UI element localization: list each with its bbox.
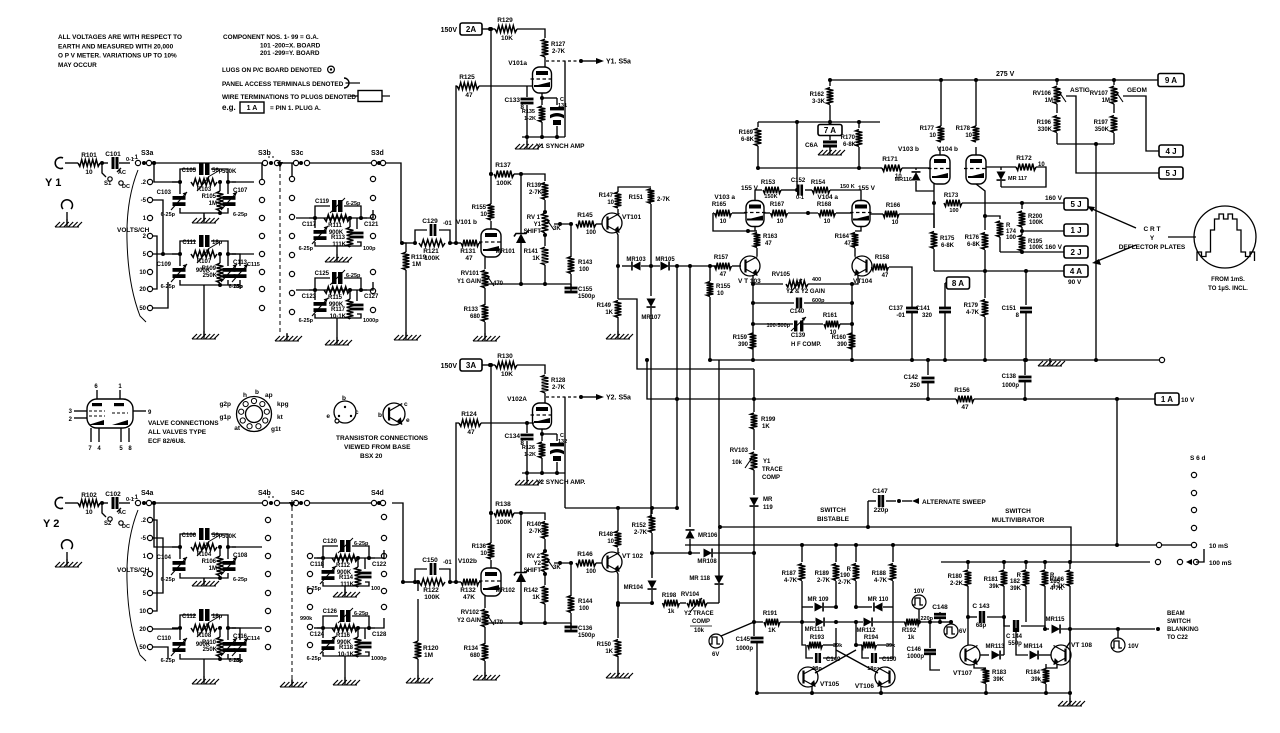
resistor R160 <box>849 333 856 349</box>
svg-text:39k: 39k <box>833 643 843 649</box>
svg-text:Y2. S5a: Y2. S5a <box>606 395 631 402</box>
svg-text:S4b: S4b <box>258 490 271 497</box>
svg-text:470: 470 <box>493 620 504 626</box>
svg-text:R168: R168 <box>817 202 832 208</box>
svg-text:BSX 20: BSX 20 <box>360 453 383 460</box>
pulse symbol 10V <box>912 595 926 609</box>
pulse symbol 6V (right) <box>944 624 958 638</box>
resistor R169 <box>757 122 759 127</box>
wire (x652 lower) <box>651 508 653 514</box>
capacitor C128 <box>359 642 372 645</box>
svg-text:400: 400 <box>812 277 821 283</box>
svg-text:68p: 68p <box>976 623 987 629</box>
svg-text:C107: C107 <box>233 188 248 194</box>
svg-text:900K: 900K <box>196 268 211 274</box>
svg-text:-01: -01 <box>443 560 452 566</box>
resistor R182 <box>1025 562 1027 569</box>
resistor R200 <box>1021 203 1023 209</box>
resistor R173 <box>944 200 962 207</box>
svg-text:R139: R139 <box>527 183 542 189</box>
svg-text:C102: C102 <box>105 491 121 498</box>
switch contact (S3 bank2 left) <box>289 214 294 219</box>
node Y2. S5a <box>579 395 583 399</box>
svg-text:C138: C138 <box>1002 374 1017 380</box>
switch contact (S3 bank2 left) <box>289 176 294 181</box>
svg-text:90 V: 90 V <box>1068 279 1082 286</box>
svg-text:ALTERNATE SWEEP: ALTERNATE SWEEP <box>922 499 986 506</box>
wire <box>323 546 338 558</box>
resistor R189 <box>835 545 837 562</box>
resistor R165 <box>713 212 714 214</box>
resistor R175 <box>933 203 935 228</box>
wire <box>484 661 486 677</box>
wire <box>564 397 566 473</box>
svg-text:1k: 1k <box>668 609 675 615</box>
svg-text:390: 390 <box>837 342 848 348</box>
capacitor C127 <box>351 304 364 307</box>
svg-text:kpg: kpg <box>277 401 289 408</box>
svg-text:Y1 SYNCH AMP: Y1 SYNCH AMP <box>536 143 585 150</box>
capacitor C122 <box>359 572 372 575</box>
svg-text:R163: R163 <box>763 234 778 240</box>
terminal <box>1177 559 1182 564</box>
capacitor C149 <box>806 645 813 658</box>
wire <box>309 502 372 504</box>
svg-text:R156: R156 <box>954 387 970 394</box>
capacitor C150 <box>862 645 869 658</box>
resistor R155 (VT103 base) <box>707 282 714 297</box>
svg-text:220p: 220p <box>874 507 889 514</box>
svg-text:R107: R107 <box>197 259 212 265</box>
resistor R145 <box>576 221 596 228</box>
potentiometer RV 1 <box>542 213 549 233</box>
svg-text:Y2: Y2 <box>534 561 542 567</box>
svg-text:6-25p: 6-25p <box>161 212 176 218</box>
wire <box>526 137 528 145</box>
svg-text:c: c <box>355 409 359 416</box>
svg-text:3-3K: 3-3K <box>812 99 826 105</box>
svg-text:ALL VOLTAGES ARE WITH RESPEC: ALL VOLTAGES ARE WITH RESPECT TO <box>58 34 182 41</box>
resistor R121 <box>419 240 445 247</box>
svg-text:1500p: 1500p <box>578 294 595 300</box>
svg-text:V104 a: V104 a <box>817 194 838 201</box>
svg-text:100: 100 <box>586 230 597 236</box>
potentiometer RV 2 <box>542 552 549 572</box>
wire <box>544 265 546 284</box>
svg-text:C127: C127 <box>364 294 379 300</box>
wire <box>450 242 461 244</box>
svg-text:9 A: 9 A <box>1165 76 1177 85</box>
wire <box>403 581 415 583</box>
svg-text:DC: DC <box>122 184 130 190</box>
switch contact (S3 wafer) <box>259 179 264 184</box>
switch contact (S4 bank2 left) <box>307 553 312 558</box>
svg-text:S3d: S3d <box>371 150 384 157</box>
wire (VT107 emitter) <box>974 664 986 668</box>
svg-text:6-25p: 6-25p <box>299 246 314 252</box>
svg-text:39k: 39k <box>989 584 1000 590</box>
wire (VT103 emitter) <box>752 275 754 360</box>
diode MR104 <box>651 553 653 578</box>
wire <box>315 278 330 290</box>
svg-text:4-7K: 4-7K <box>1052 584 1066 590</box>
svg-text:47: 47 <box>465 92 473 99</box>
svg-text:275 V: 275 V <box>996 71 1015 78</box>
switch contact (S3 bank2 right) <box>370 195 375 200</box>
svg-text:MR105: MR105 <box>655 257 675 263</box>
resistor R167 <box>764 212 770 214</box>
svg-text:Y1 GAIN: Y1 GAIN <box>457 279 481 285</box>
switch contact (S4 bank2 right) <box>381 553 386 558</box>
resistor R142 <box>542 586 549 604</box>
svg-text:R160: R160 <box>832 335 847 341</box>
wire <box>309 217 367 219</box>
plug 2J <box>1000 251 1064 253</box>
capacitor C133 <box>526 86 528 97</box>
svg-text:C112: C112 <box>182 614 197 620</box>
capacitor C106 <box>199 528 204 540</box>
capacitor C142 <box>927 360 929 375</box>
svg-text:470: 470 <box>493 281 504 287</box>
svg-text:R106: R106 <box>202 559 217 565</box>
svg-text:6-8K: 6-8K <box>741 137 755 143</box>
svg-text:kt: kt <box>277 414 284 421</box>
plug 5J <box>1064 198 1088 210</box>
svg-text:3K: 3K <box>553 226 561 232</box>
switch contact (S3 wafer) <box>259 233 264 238</box>
pulse symbol 6V (left) <box>709 634 723 648</box>
resistor R143 <box>568 257 575 274</box>
svg-text:10: 10 <box>480 212 487 218</box>
transistor VT103 <box>740 256 760 276</box>
svg-text:R131: R131 <box>460 248 476 255</box>
diode MR107 <box>647 299 656 308</box>
svg-text:R170: R170 <box>841 135 856 141</box>
wire <box>450 581 461 583</box>
svg-text:b: b <box>255 389 259 396</box>
switch contact (S4 bank2 left) <box>307 571 312 576</box>
svg-text:39k: 39k <box>886 643 896 649</box>
wire <box>521 513 545 520</box>
switch contact (S3 bank2 right) <box>370 214 375 219</box>
wire <box>286 334 288 338</box>
svg-text:6-25p: 6-25p <box>299 318 314 324</box>
switch contact (S4 bank2 left) <box>307 642 312 647</box>
capacitor C134 <box>526 422 528 433</box>
svg-text:Y1: Y1 <box>763 459 771 465</box>
wire (VT107 collector up) <box>967 617 969 645</box>
resistor R146 <box>576 560 596 567</box>
svg-text:10: 10 <box>824 219 831 225</box>
svg-text:2-7K: 2-7K <box>552 385 566 391</box>
svg-text:10K: 10K <box>501 371 513 378</box>
wire (multivib top rail y562) <box>941 561 1150 563</box>
svg-text:R116: R116 <box>336 633 351 639</box>
svg-text:V101a: V101a <box>508 60 527 67</box>
potentiometer RV107 <box>1113 80 1115 85</box>
transistor VT104 <box>852 256 872 276</box>
potentiometer RV102 <box>484 596 486 608</box>
capacitor C144 <box>1004 617 1010 626</box>
svg-text:LUGS ON P/C BOARD DENOTED: LUGS ON P/C BOARD DENOTED <box>222 67 322 74</box>
svg-text:1500p: 1500p <box>578 633 595 639</box>
svg-text:ECF 82/6U8.: ECF 82/6U8. <box>148 438 186 445</box>
wire (V104a cathode) <box>855 227 861 231</box>
wire <box>180 241 196 254</box>
transistor VT107 <box>960 645 980 665</box>
svg-text:MR111: MR111 <box>805 627 824 633</box>
ground <box>291 679 293 687</box>
svg-text:10 V: 10 V <box>1181 397 1195 404</box>
wire (to crt) <box>1168 236 1196 238</box>
svg-text:h: h <box>243 392 247 399</box>
svg-text:R159: R159 <box>733 335 748 341</box>
wire <box>100 162 108 164</box>
svg-text:100: 100 <box>579 606 590 612</box>
svg-text:10 mS: 10 mS <box>1209 543 1229 550</box>
resistor R188 <box>892 545 894 562</box>
svg-text:b: b <box>378 412 382 419</box>
capacitor C137 <box>911 305 913 307</box>
svg-text:R193: R193 <box>810 635 825 641</box>
wire <box>172 627 180 629</box>
transistor symbol diagram <box>383 403 405 425</box>
svg-text:R199: R199 <box>761 417 776 423</box>
wire <box>485 622 571 624</box>
switch S2 <box>102 503 106 517</box>
svg-text:100K: 100K <box>1029 245 1044 251</box>
wire (bistable cross-coupling) <box>835 628 837 645</box>
resistor R158 <box>872 264 889 271</box>
wire <box>291 163 293 176</box>
ground <box>203 215 205 223</box>
svg-text:47: 47 <box>844 241 851 247</box>
svg-text:1M: 1M <box>209 566 217 572</box>
svg-text:R147: R147 <box>599 193 614 199</box>
svg-text:C146: C146 <box>907 647 922 653</box>
wire <box>402 242 415 244</box>
wire <box>296 289 315 291</box>
resistor R122 <box>419 579 445 586</box>
ground <box>203 578 205 586</box>
svg-text:C122: C122 <box>372 562 387 568</box>
svg-text:550p: 550p <box>1008 641 1022 647</box>
switch contact (S3 bank2 left) <box>289 252 294 257</box>
wire <box>172 253 180 255</box>
resistor R184 <box>1045 664 1047 669</box>
svg-text:RV105: RV105 <box>772 272 791 278</box>
capacitor C150 <box>415 569 427 582</box>
wire (main lower bus) <box>710 359 1162 361</box>
svg-text:50: 50 <box>139 645 146 651</box>
svg-text:R176: R176 <box>965 235 980 241</box>
svg-text:111K: 111K <box>332 242 346 248</box>
svg-text:C145: C145 <box>736 637 751 643</box>
resistor R151 <box>648 189 655 204</box>
plug 4A <box>1064 265 1088 277</box>
svg-text:10: 10 <box>607 539 614 545</box>
svg-text:250: 250 <box>910 383 921 389</box>
svg-text:R179: R179 <box>964 303 979 309</box>
wire <box>296 217 315 219</box>
svg-text:C114: C114 <box>247 636 261 642</box>
wire <box>152 236 157 289</box>
svg-text:4 J: 4 J <box>1165 147 1176 156</box>
resistor R155 <box>488 204 495 220</box>
svg-text:VOLTS/CH: VOLTS/CH <box>117 227 150 234</box>
arrow to 5J <box>1090 208 1136 228</box>
svg-text:190: 190 <box>840 573 851 579</box>
svg-text:10: 10 <box>139 609 146 615</box>
svg-text:10: 10 <box>85 169 93 176</box>
switch contact (S3 bank2 right) <box>370 269 375 274</box>
svg-text:2-7K: 2-7K <box>552 49 566 55</box>
resistor R114 <box>355 567 362 587</box>
svg-text:PANEL ACCESS TERMINALS DENOT: PANEL ACCESS TERMINALS DENOTED <box>222 81 344 88</box>
svg-text:MR 110: MR 110 <box>868 597 889 603</box>
capacitor C101 <box>112 157 115 169</box>
potentiometer RV105 <box>753 283 783 285</box>
wire (frame top) <box>758 121 880 123</box>
plug 1A <box>1155 393 1179 405</box>
svg-text:R151: R151 <box>629 195 644 201</box>
svg-text:1 A: 1 A <box>247 105 258 112</box>
svg-text:R142: R142 <box>524 588 539 594</box>
svg-text:0-1: 0-1 <box>796 195 804 201</box>
resistor R111 <box>324 215 350 222</box>
svg-text:3K: 3K <box>553 565 561 571</box>
wire <box>179 254 181 266</box>
resistor R149 <box>615 301 622 318</box>
resistor R115 <box>324 287 350 294</box>
resistor R162 <box>829 80 831 86</box>
wire <box>119 502 130 504</box>
svg-text:100K: 100K <box>496 519 512 526</box>
wire <box>336 246 338 260</box>
capacitor C121 <box>351 232 364 235</box>
resistor R116 <box>332 625 358 632</box>
wire (vertical x710 R155b) <box>709 266 711 281</box>
wire <box>544 393 546 403</box>
svg-text:10: 10 <box>720 219 727 225</box>
wire (V103b anode) <box>939 147 941 155</box>
svg-text:680: 680 <box>470 653 481 659</box>
svg-text:R144: R144 <box>578 599 593 605</box>
resistor R195 <box>1019 235 1026 251</box>
svg-text:R124: R124 <box>461 411 477 418</box>
svg-text:4-7K: 4-7K <box>784 578 798 584</box>
dashed separator (Y1) <box>279 160 281 334</box>
wire <box>369 618 384 628</box>
svg-text:R194: R194 <box>864 635 879 641</box>
diode MR117 <box>1000 167 1002 170</box>
resistor R176 <box>984 216 986 230</box>
wire <box>564 61 566 137</box>
wire <box>709 297 711 360</box>
svg-text:R169: R169 <box>739 130 754 136</box>
resistor R153 <box>763 187 781 194</box>
capacitor C152 <box>781 189 795 191</box>
svg-text:TRACE: TRACE <box>762 467 783 473</box>
svg-text:6-8K: 6-8K <box>967 242 981 248</box>
resistor R197 <box>1111 116 1118 133</box>
capacitor C136 <box>570 613 572 626</box>
capacitor C138 <box>1024 360 1026 375</box>
svg-text:C140: C140 <box>790 309 805 315</box>
resistor R134 <box>484 627 486 644</box>
node (input) <box>401 580 405 584</box>
wire <box>228 254 240 266</box>
wire (cathode rail) <box>522 472 565 474</box>
switch contact (S4 bank2 left) <box>307 624 312 629</box>
switch contact (S4 bank2 left) <box>307 604 312 609</box>
trimmer C125 <box>332 272 337 284</box>
svg-text:R134: R134 <box>464 646 479 652</box>
svg-text:g1p: g1p <box>219 414 231 421</box>
svg-text:500K: 500K <box>222 534 237 540</box>
plug 5J (lower) <box>1159 167 1183 179</box>
svg-text:100: 100 <box>1006 235 1017 241</box>
valve connections diagram <box>87 399 133 428</box>
resistor R129 <box>495 26 517 33</box>
svg-text:COMP: COMP <box>762 475 780 481</box>
switch contact (S4 wafer) <box>265 626 270 631</box>
svg-text:O P V METER. VARIATIONS UP TO: O P V METER. VARIATIONS UP TO 10% <box>58 53 177 60</box>
svg-text:R126: R126 <box>522 445 535 451</box>
ground <box>336 254 338 262</box>
svg-text:R178: R178 <box>956 126 971 132</box>
resistor R140 <box>542 522 549 539</box>
wire <box>172 546 180 548</box>
svg-text:WIRE TERMINATIONS TO PLUGS DEN: WIRE TERMINATIONS TO PLUGS DENOTED <box>222 94 356 101</box>
wire <box>617 317 619 336</box>
wire (vertical x677) <box>676 266 678 399</box>
resistor R154 <box>805 189 812 191</box>
svg-text:160 V: 160 V <box>1045 244 1063 251</box>
resistor R135 <box>541 98 543 105</box>
ground <box>417 675 419 683</box>
svg-text:R165: R165 <box>712 202 727 208</box>
svg-text:1M: 1M <box>209 201 217 207</box>
wire <box>100 502 108 504</box>
wire <box>570 224 572 257</box>
wire (bistable top rail y545) <box>685 544 1194 546</box>
wire <box>180 169 196 182</box>
svg-text:MR102: MR102 <box>496 588 516 594</box>
wire <box>154 503 178 547</box>
svg-text:MULTIVIBRATOR: MULTIVIBRATOR <box>992 517 1045 524</box>
resistor R166 <box>870 213 883 215</box>
wire (y553 row) <box>652 552 700 554</box>
plug 1J <box>1022 230 1064 232</box>
svg-text:VT 108: VT 108 <box>1071 642 1092 649</box>
wire <box>974 398 1155 400</box>
resistor R147 <box>617 209 619 215</box>
svg-text:10: 10 <box>139 270 146 276</box>
svg-text:COMP: COMP <box>692 619 710 625</box>
svg-text:2-7K: 2-7K <box>529 529 543 535</box>
wire (150V rail drop) <box>490 29 492 174</box>
svg-text:R187: R187 <box>782 571 797 577</box>
svg-text:320: 320 <box>922 313 933 319</box>
wire <box>65 162 78 164</box>
svg-text:C119: C119 <box>315 199 330 205</box>
trimmer C115 <box>234 268 247 272</box>
svg-text:R118: R118 <box>339 645 354 651</box>
svg-text:R155: R155 <box>716 284 731 290</box>
ground (multivib) <box>1069 693 1071 703</box>
trimmer C109 <box>173 268 186 272</box>
